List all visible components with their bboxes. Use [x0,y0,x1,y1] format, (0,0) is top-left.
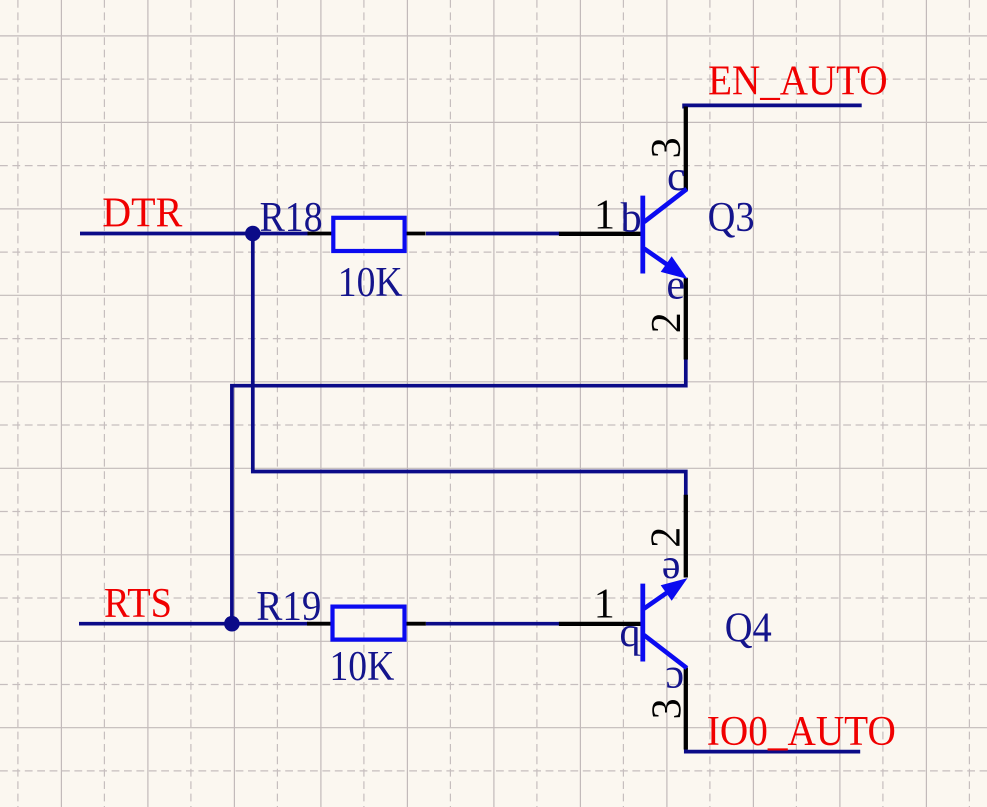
wire Q3 emitter down and across to RTS junction [232,359,686,624]
wire EN_AUTO [684,105,862,108]
transistor Q4 base pin 1 [559,622,642,626]
wire R19 to Q4 base [426,622,560,626]
transistor Q4 collector stroke [644,635,687,668]
svg-text:3: 3 [644,137,690,158]
svg-text:10K: 10K [330,644,395,690]
svg-text:1: 1 [594,193,615,239]
svg-text:EN_AUTO: EN_AUTO [708,59,888,105]
transistor Q4 collector pin 3 [684,668,688,750]
transistor Q3 base pin 1 [559,232,642,236]
resistor R18 right lead [406,232,426,236]
svg-text:2: 2 [643,527,689,548]
transistor Q3 collector pin 3 [684,107,688,191]
svg-text:RTS: RTS [104,581,172,627]
transistor Q4 base bar [640,584,645,662]
svg-text:DTR: DTR [102,191,182,237]
resistor R18 left lead [308,232,333,236]
wire IO0_AUTO [686,749,860,751]
transistor Q3 base bar [640,196,645,274]
transistor Q4 emitter pin 2 [684,495,688,578]
svg-text:2: 2 [644,312,690,333]
wire DTR junction down and across to Q4 emitter [253,234,686,496]
svg-text:1: 1 [594,582,615,628]
transistor Q4 emitter arrow [661,578,688,601]
resistor R19 body [333,607,405,640]
svg-text:Q4: Q4 [725,605,772,651]
wire R18 to Q3 base [426,232,560,236]
transistor Q3 emitter pin 2 [684,278,688,360]
node junction DTR [245,226,261,242]
svg-text:Q3: Q3 [708,195,755,241]
svg-text:c: c [665,658,684,704]
svg-text:R19: R19 [256,584,321,630]
transistor Q3 emitter stroke [644,249,672,269]
wire RTS horizontal [79,622,308,626]
wire DTR horizontal [80,232,309,236]
svg-text:c: c [667,154,686,200]
resistor R19 right lead [406,622,426,626]
svg-text:R18: R18 [260,195,323,241]
resistor R18 body [333,218,404,251]
transistor Q3 emitter arrow [661,256,688,279]
transistor Q4 emitter stroke [644,589,672,609]
svg-text:IO0_AUTO: IO0_AUTO [707,709,896,755]
svg-text:e: e [666,263,685,309]
transistor Q3 collector stroke [644,189,687,222]
svg-text:10K: 10K [338,260,403,306]
svg-text:e: e [662,548,681,594]
svg-text:3: 3 [644,698,690,719]
svg-text:b: b [621,196,642,242]
node junction RTS [224,616,240,632]
resistor R19 left lead [307,622,332,626]
svg-text:b: b [619,617,640,663]
